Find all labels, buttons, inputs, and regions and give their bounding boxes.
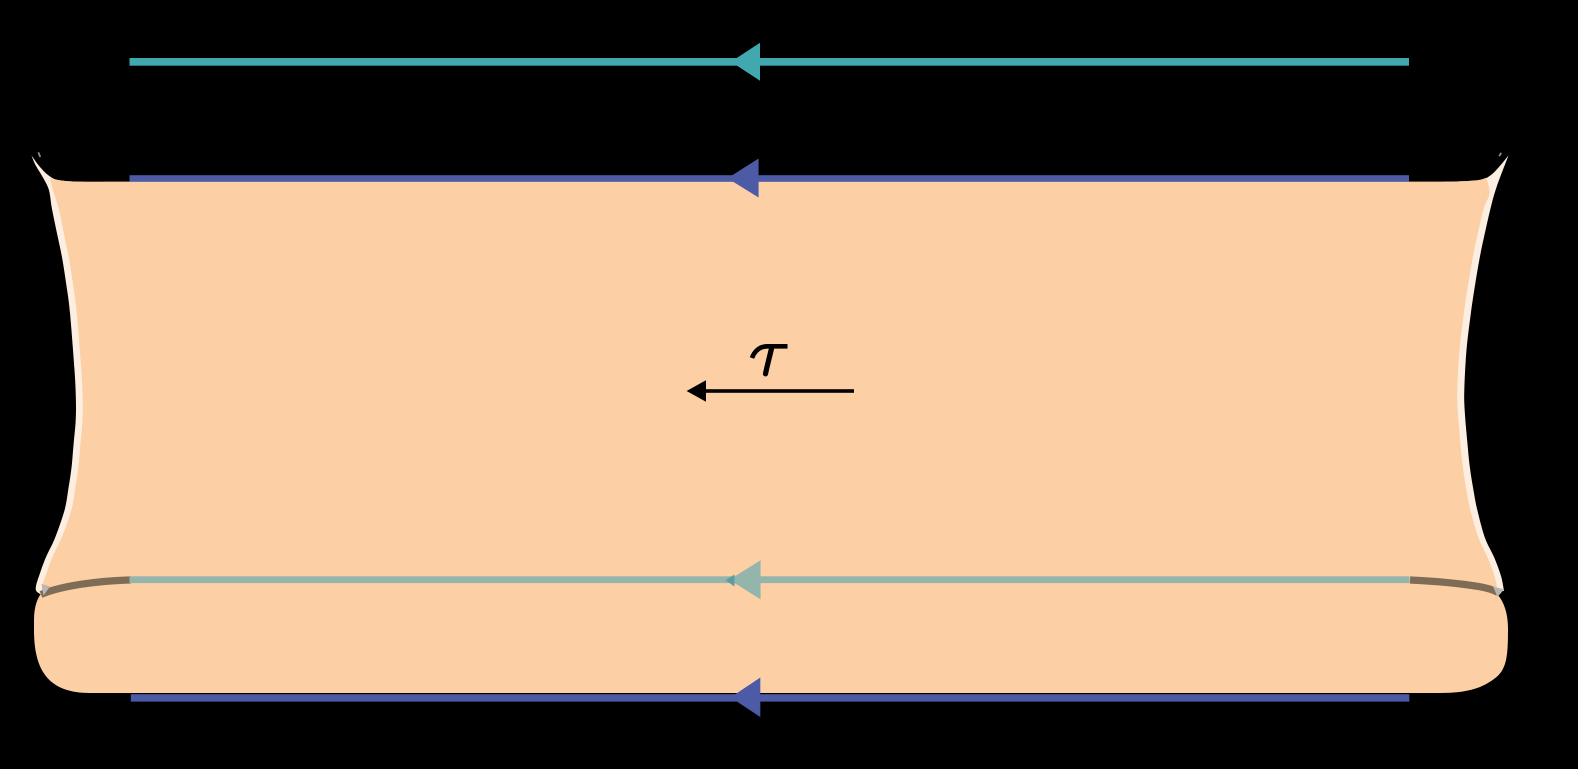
bar lower slab (peach rounded)	[34, 580, 1508, 693]
wire top blue line	[130, 175, 1410, 182]
wire sage velocity line	[130, 576, 1410, 583]
node top arrowhead (teal)	[731, 43, 760, 81]
gray tip tick right	[1499, 153, 1501, 156]
slab body (peach)	[42, 178, 1498, 594]
wire tau arrow shaft	[700, 389, 854, 393]
gray junction wedge right	[1493, 586, 1504, 597]
gray junction wedge left	[42, 584, 51, 596]
node top blue arrowhead	[728, 159, 759, 198]
gray tip tick left	[38, 152, 40, 157]
label tau glyph	[752, 346, 788, 374]
brown junction curve left	[41, 580, 131, 595]
node bottom blue arrowhead	[731, 678, 761, 718]
node sage arrowhead	[729, 560, 760, 599]
wire bottom blue line	[131, 694, 1410, 701]
brown junction curve right	[1410, 580, 1498, 593]
node sage arrow dark tip	[726, 575, 735, 587]
wire top velocity line (teal)	[130, 58, 1410, 66]
node tau arrowhead	[687, 380, 706, 402]
slab highlight silhouette (cream)	[32, 156, 1509, 595]
